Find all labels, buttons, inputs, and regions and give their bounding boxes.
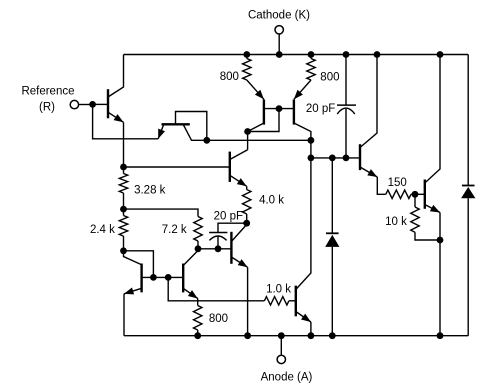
resistor 7.2k [194,217,202,249]
capacitor C1 [337,55,356,158]
resistor 3.28k label [134,184,166,196]
node mirror base [276,105,283,112]
svg-text:10 k: 10 k [385,216,407,228]
resistor 150 label [388,177,407,189]
resistor 7.2k label [162,224,187,236]
capacitor C2 [209,223,247,249]
node Q9 collector tap [308,155,315,162]
wire Q1 emitter to node [123,122,125,167]
wire Q2 collector [184,125,207,140]
resistor 1.0k [264,297,295,305]
junction Q9 emitter-rail [308,332,315,339]
svg-text:2.4 k: 2.4 k [90,224,115,236]
junction C1 top [343,51,350,58]
junction 800R top [308,51,315,58]
resistor 10k label [385,216,407,228]
junction anode stem [278,332,285,339]
resistor 3.28k [119,167,127,209]
transistor Q1 bar [107,89,109,118]
wire mid horizontal [207,139,311,141]
wire Q4 collector [294,123,311,140]
wire Q11 collector [425,55,440,184]
wire Q11 emitter [425,205,440,241]
wire top cathode rail [124,54,469,56]
resistor 800 left label [220,71,239,83]
svg-text:4.0 k: 4.0 k [259,195,284,207]
resistor 4.0k label [259,195,284,207]
svg-text:800: 800 [220,71,239,83]
transistor Q3 bar [263,100,265,125]
wire Q9 emitter [296,312,311,336]
wire Q3 collector [248,123,264,132]
junction cathode-rail [276,51,283,58]
junction Q10 collector-rail [374,51,381,58]
capacitor C1 label [306,103,335,115]
wire Q7 emitter [183,288,198,301]
wire mirror-left collector down [247,132,249,150]
node Q3 collector [244,128,251,135]
wire Q2 emitter [158,125,165,139]
svg-text:800: 800 [209,313,228,325]
svg-text:Anode (A): Anode (A) [261,372,313,384]
resistor 800 bottom label [209,313,228,325]
wire Q6 emitter [124,288,142,295]
svg-text:150: 150 [388,177,407,189]
transistor Q4 bar [293,100,295,125]
wire Q5 collector [230,150,248,160]
node C2 bottom [215,245,222,252]
wire base tap down [168,277,264,300]
diode D2 [461,55,475,336]
wire Q3 emitter [247,80,264,99]
svg-text:7.2 k: 7.2 k [162,224,187,236]
resistor 800 right [307,55,315,81]
node 3.28k bottom [120,206,127,213]
wire 2.4k to base [124,251,154,278]
wire left ground leg [123,294,125,336]
junction 800L top [243,51,250,58]
wire Q1 base [93,103,108,105]
node 4.0k bottom [243,220,250,227]
wire mirror base link [264,108,294,110]
resistor 800 right label [320,71,339,83]
junction D1 bottom [329,332,336,339]
transistor Q10 bar [359,144,361,170]
resistor 2.4k [119,209,127,251]
svg-text:1.0 k: 1.0 k [266,283,291,295]
transistor Q7 bar [182,264,184,293]
node 2.4k bottom [120,247,127,254]
transistor Q11 bar [424,180,426,209]
wire Q6 collector [124,251,142,265]
node Q6 base [150,274,157,281]
wire Q8 collector [231,225,246,242]
resistor 150 [386,190,415,198]
transistor Q9 bar [295,286,297,317]
wire ref node down [93,104,159,138]
node Q1 emitter [120,164,127,171]
node 7.2k bottom [195,245,202,252]
resistor 800 bottom [194,301,202,336]
transistor Q2 bar [162,123,190,125]
transistor Q8 bar [230,232,232,264]
svg-text:20 pF: 20 pF [214,210,243,222]
junction Q8 emitter-rail [244,332,251,339]
resistor 2.4k label [90,224,115,236]
wire Q8 emitter [231,257,247,267]
wire Q11 emitter down [439,240,441,336]
junction Q11 collector-rail [437,51,444,58]
wire Q7 collector [183,249,198,266]
svg-text:800: 800 [320,71,339,83]
capacitor C2 label [214,210,243,222]
junction 800 bottom [194,332,201,339]
wire bottom anode rail [124,335,468,337]
cathode terminal label [248,10,310,22]
wire Q2 base loop [176,112,207,141]
wire Q9 collector [296,140,311,289]
node mirror right collector [308,137,315,144]
wire Q5 base [124,166,230,168]
junction Q11 emitter-rail [437,332,444,339]
transistor Q6 bar [140,264,142,293]
wire cathode stem [278,34,280,54]
wire to 7.2k top [124,209,199,216]
transistor Q5 bar [229,152,231,182]
svg-text:Reference: Reference [21,86,74,98]
node R [89,101,96,108]
wire Q4 emitter [294,80,311,99]
wire to darlington base [311,157,360,159]
node Q11 emitter [437,237,444,244]
node Q2 collector [203,137,210,144]
wire Q10 collector [360,55,377,148]
svg-text:20 pF: 20 pF [306,103,335,115]
anode terminal label [261,372,313,384]
svg-text:(R): (R) [39,101,55,113]
cathode terminal K [275,26,283,34]
wire Q1 collector [108,55,124,98]
wire Q8 emitter down [247,267,249,335]
wire Q8 base [198,248,231,250]
resistor 800 left [243,55,251,81]
wire Q10 emitter [360,167,386,194]
wire Q5 emitter [230,175,247,186]
resistor 4.0k [243,186,251,223]
junction C1 bottom [343,155,350,162]
wire reference lead [79,104,93,106]
wire mirror base to collector [248,109,279,132]
diode D1 [325,158,339,336]
resistor 1.0k label [266,283,291,295]
reference terminal R [70,100,78,108]
node Q7 base tap [165,274,172,281]
resistor 10k [411,194,440,240]
anode terminal A [277,355,285,363]
node 150-10k [412,191,419,198]
wire anode stem [280,336,282,356]
wire Q1 emitter [108,112,124,122]
junction D1 top [329,155,336,162]
wire Q11 base [415,193,425,195]
svg-text:Cathode (K): Cathode (K) [248,10,310,22]
svg-text:3.28 k: 3.28 k [134,184,166,196]
wire Q6 base link [142,276,184,278]
reference terminal label [21,86,74,114]
